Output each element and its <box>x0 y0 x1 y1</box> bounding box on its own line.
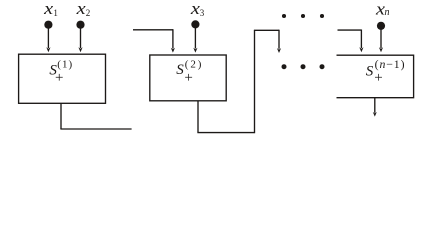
svg-text:x: x <box>75 0 86 18</box>
summing unit U1 box <box>19 54 106 103</box>
input arrow x1 <box>46 24 50 52</box>
svg-text:1: 1 <box>53 8 58 18</box>
output arrow U3 <box>373 98 377 117</box>
label x1 <box>43 0 58 18</box>
wire U2 output up <box>254 30 256 133</box>
wire into U3 down arrow <box>359 30 363 53</box>
summing unit U3 box (open left) <box>337 55 414 97</box>
svg-text:S: S <box>366 64 374 80</box>
label S+(2) <box>176 58 203 86</box>
wire U2 output down <box>197 101 199 133</box>
input dot x3 <box>191 20 199 28</box>
svg-text:x: x <box>43 0 54 18</box>
wire into U2 horizontal <box>133 29 173 31</box>
label x2 <box>75 0 90 18</box>
input arrow x3 <box>193 24 197 53</box>
label x3 <box>190 0 205 18</box>
svg-text:+: + <box>184 70 192 86</box>
wire U1 output right <box>60 128 131 130</box>
label S+(1) <box>49 58 73 86</box>
svg-text:(n−1): (n−1) <box>375 57 406 71</box>
ellipsis top row <box>282 14 324 18</box>
input dot xn <box>377 22 385 30</box>
input dot x1 <box>44 21 52 29</box>
ellipsis middle row <box>282 64 325 69</box>
input arrow x2 <box>78 24 82 52</box>
svg-text:3: 3 <box>200 8 205 18</box>
summing unit U2 box <box>150 55 226 101</box>
input dot x2 <box>76 21 84 29</box>
input arrow xn <box>379 26 383 53</box>
wire into U2 down arrow <box>171 29 175 52</box>
wire U2 output right <box>197 132 254 134</box>
svg-text:S: S <box>176 62 184 78</box>
svg-text:n: n <box>385 7 390 18</box>
wire U2 output right top <box>254 29 279 31</box>
svg-text:+: + <box>374 70 382 86</box>
wire U1 output down <box>60 103 62 129</box>
wire U2 output down arrow <box>277 30 281 53</box>
label S+(n-1) <box>366 57 406 86</box>
svg-text:(2): (2) <box>185 58 204 70</box>
svg-text:+: + <box>55 70 63 86</box>
svg-text:(1): (1) <box>57 58 73 70</box>
label xn <box>375 0 390 18</box>
wire into U3 horizontal <box>338 29 362 31</box>
svg-text:2: 2 <box>86 8 91 18</box>
